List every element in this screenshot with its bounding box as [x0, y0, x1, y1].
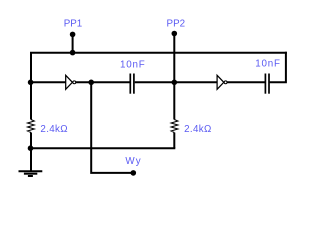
- svg-text:Wy: Wy: [125, 156, 141, 167]
- svg-text:2.4kΩ: 2.4kΩ: [40, 124, 68, 135]
- svg-text:2.4kΩ: 2.4kΩ: [184, 124, 212, 135]
- svg-text:10nF: 10nF: [120, 59, 146, 70]
- svg-text:PP2: PP2: [167, 18, 186, 29]
- svg-text:10nF: 10nF: [255, 59, 281, 70]
- svg-text:PP1: PP1: [64, 18, 83, 29]
